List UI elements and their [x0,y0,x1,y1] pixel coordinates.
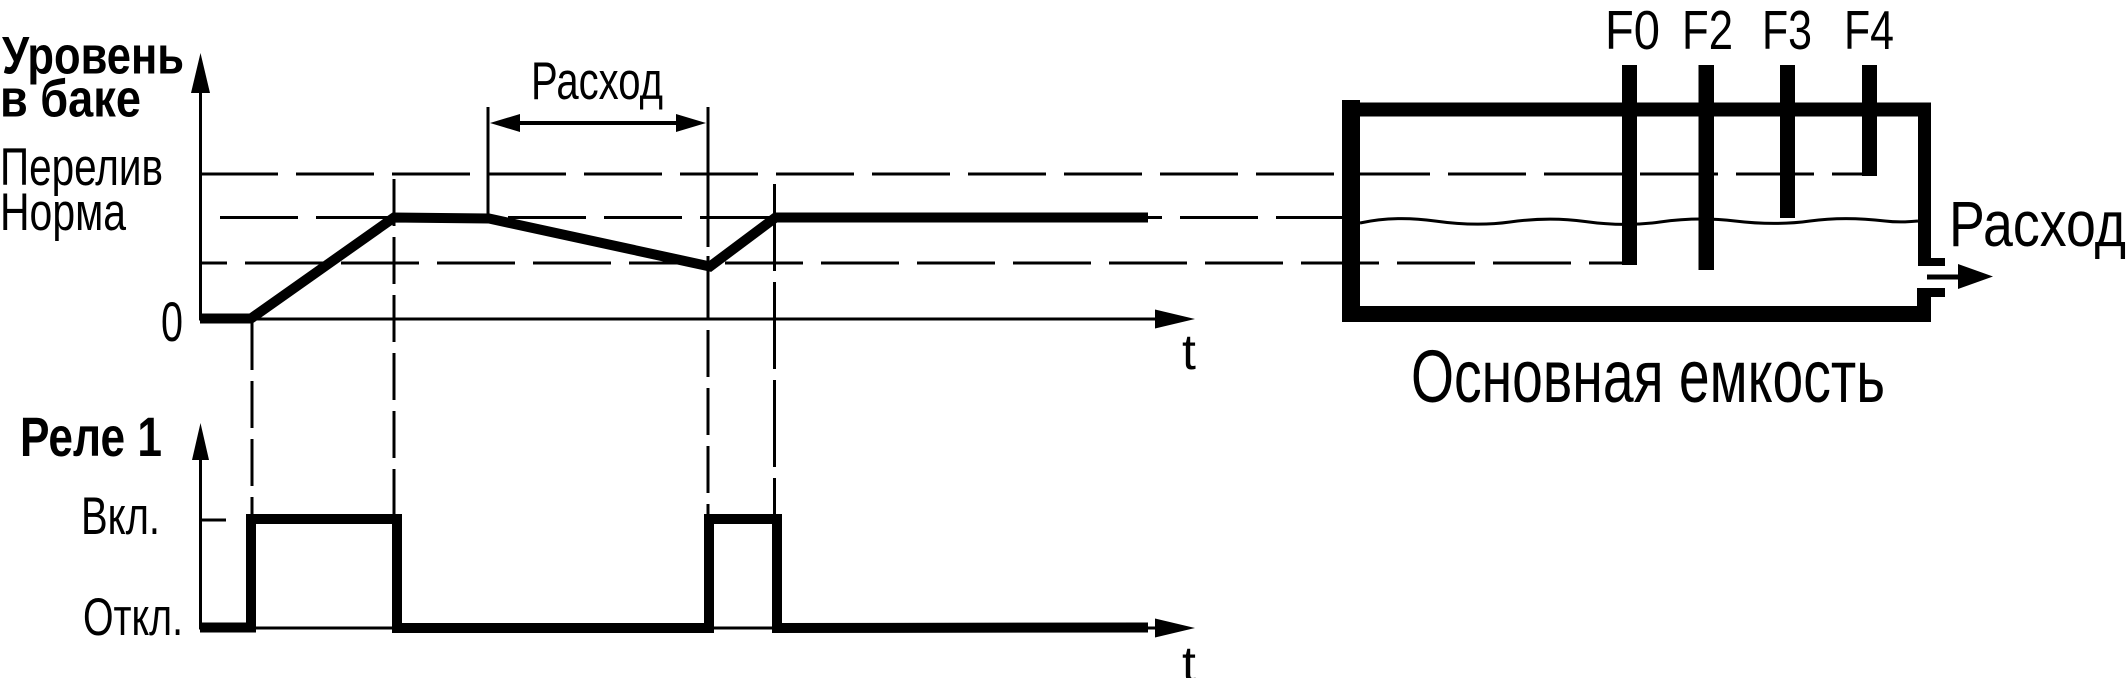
svg-text:Расход: Расход [1949,188,2126,260]
svg-text:F3: F3 [1762,0,1812,61]
svg-text:Норма: Норма [0,183,126,242]
svg-text:Вкл.: Вкл. [81,487,160,546]
svg-text:t: t [1182,324,1196,380]
svg-text:F2: F2 [1682,0,1733,61]
svg-text:Реле 1: Реле 1 [20,405,162,468]
svg-text:Откл.: Откл. [83,588,183,647]
svg-text:0: 0 [161,290,183,353]
svg-text:t: t [1182,636,1196,678]
svg-text:Основная емкость: Основная емкость [1411,335,1885,418]
svg-text:в баке: в баке [0,70,141,129]
svg-text:Расход: Расход [531,52,663,111]
svg-text:F4: F4 [1844,0,1894,61]
svg-text:F0: F0 [1605,0,1660,61]
